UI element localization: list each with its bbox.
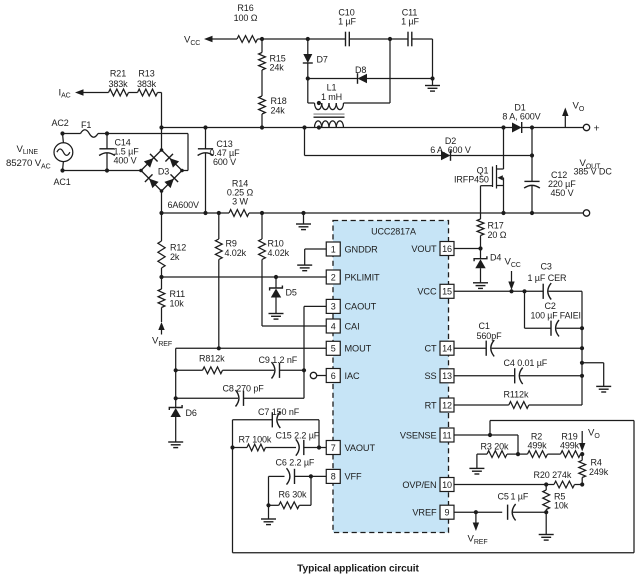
label VOUT 385VDC [574, 158, 613, 176]
svg-text:20 Ω: 20 Ω [488, 230, 507, 240]
ground (CT/SS rail) [582, 363, 611, 392]
capacitor C5 1uF [498, 491, 547, 520]
svg-text:24k: 24k [271, 105, 286, 115]
capacitor C9 1.2nF [223, 355, 305, 379]
svg-text:R21: R21 [110, 68, 126, 78]
svg-text:249k: 249k [589, 467, 609, 477]
node R5/C5 [544, 510, 548, 514]
node D2 cathode [530, 153, 534, 157]
ground (GNDDR) [297, 265, 312, 271]
svg-text:R20 274k: R20 274k [534, 470, 572, 480]
ground (R3) [469, 468, 484, 474]
node D7 top [306, 37, 310, 41]
node output positive [530, 125, 534, 129]
node R12/R11 [159, 275, 163, 279]
pin 10 OVP/EN [402, 478, 454, 492]
svg-text:6A600V: 6A600V [168, 200, 200, 210]
svg-text:C2: C2 [545, 301, 556, 311]
svg-text:MOUT: MOUT [345, 344, 372, 354]
power flag VCC (right) [505, 257, 521, 290]
svg-text:D6: D6 [186, 408, 197, 418]
zener diode D5 [270, 275, 297, 314]
svg-text:1 µF: 1 µF [401, 17, 419, 27]
resistor R6 30k [269, 476, 312, 508]
node D2 branch [302, 125, 306, 129]
power flag VCC (top) [184, 35, 237, 47]
wire CAI [262, 325, 326, 327]
wire Q1 gate [481, 186, 493, 219]
node VREF arrow [474, 510, 478, 514]
node R19/R4 [580, 452, 584, 456]
svg-text:F1: F1 [81, 120, 91, 130]
wire GNDDR [305, 249, 327, 265]
svg-text:9: 9 [445, 508, 450, 518]
resistor R16 100ohm [234, 3, 258, 42]
source VLINE 85-270VAC [6, 143, 73, 171]
node C14 bottom [105, 168, 109, 172]
pin 9 VREF [412, 505, 454, 519]
terminal AC2 [52, 118, 69, 136]
svg-text:AC2: AC2 [52, 118, 69, 128]
pin 14 CT [424, 341, 454, 355]
wire Q1 source [503, 178, 505, 213]
svg-text:R13: R13 [138, 68, 154, 78]
current flag IAC [59, 87, 109, 99]
svg-text:16: 16 [442, 244, 452, 254]
capacitor C3 1uF CER [528, 262, 583, 300]
svg-text:AC1: AC1 [54, 177, 71, 187]
wire feedback loop [233, 421, 635, 553]
node C12 bottom [530, 211, 534, 215]
svg-text:C5: C5 [498, 491, 509, 501]
svg-text:D3: D3 [158, 167, 169, 177]
node C2 right [580, 326, 584, 330]
capacitor C1 560pF [454, 321, 582, 356]
inductor L1 1mH (transformer) [314, 83, 345, 130]
svg-text:R7 100k: R7 100k [239, 435, 272, 445]
wire CAOUT [304, 306, 326, 370]
svg-text:8 A, 600V: 8 A, 600V [502, 111, 540, 121]
svg-text:1 µF CER: 1 µF CER [528, 273, 567, 283]
pin 8 VFF [326, 469, 362, 483]
svg-text:499k: 499k [560, 441, 580, 451]
svg-text:C1: C1 [479, 321, 490, 331]
resistor R11 10k [158, 277, 185, 309]
svg-text:C15 2.2 µF: C15 2.2 µF [276, 431, 320, 441]
resistor R18 24k [259, 70, 287, 128]
svg-text:8: 8 [331, 472, 336, 482]
svg-text:VCC: VCC [417, 287, 437, 297]
zener diode D4 [474, 249, 501, 283]
resistor R13 383k [137, 68, 158, 96]
ground (return row) [296, 213, 311, 230]
wire MOUT row [176, 347, 327, 349]
svg-text:499k: 499k [527, 441, 547, 451]
svg-text:R16: R16 [237, 3, 253, 13]
pin 4 CAI [326, 319, 359, 333]
wire output column [531, 128, 533, 182]
terminal output - [583, 210, 589, 216]
pin 2 PKLIMIT [326, 270, 380, 284]
pin 6 IAC [326, 369, 360, 383]
capacitor C2 100uF [525, 291, 583, 336]
ground (D6) [168, 442, 183, 448]
wire R13 to bridge column [158, 93, 162, 151]
node R9/MOUT [217, 346, 221, 350]
svg-text:VSENSE: VSENSE [400, 430, 437, 440]
capacitor C7 150nF [233, 407, 320, 448]
svg-text:R112k: R112k [504, 389, 529, 399]
zener diode D6 [169, 405, 197, 442]
node R6 left [266, 503, 270, 507]
ground (R5) [539, 512, 554, 540]
wire VOUT(gate) row [454, 248, 481, 250]
resistor R10 4.02k [259, 213, 290, 326]
wire VSENSE row [455, 435, 519, 454]
svg-text:C9 1.2 nF: C9 1.2 nF [259, 355, 298, 365]
wire R21-R13 [129, 92, 138, 94]
svg-text:C7 150 nF: C7 150 nF [258, 407, 300, 417]
svg-text:2: 2 [331, 272, 336, 282]
node D1 anode / Q1 drain [501, 125, 505, 129]
node R3/R2 [516, 452, 520, 456]
node D8 cathode rail [430, 76, 434, 80]
svg-text:Typical application circuit: Typical application circuit [297, 564, 419, 575]
node gate drive [478, 246, 482, 250]
pin 16 VOUT [411, 242, 454, 256]
resistor R14 0.25ohm 3W [227, 178, 254, 216]
svg-text:R11: R11 [170, 289, 186, 299]
wire return row left [162, 212, 230, 214]
svg-text:R3 20k: R3 20k [481, 441, 510, 451]
svg-text:400 V: 400 V [114, 156, 137, 166]
power flag V0 (feedback) [579, 428, 600, 452]
capacitor C12 220uF 450V [524, 170, 576, 213]
resistor R2 499k [518, 432, 548, 458]
node R10 top [260, 211, 264, 215]
wire bridge bottom to return row [161, 191, 163, 213]
svg-text:24k: 24k [270, 63, 285, 73]
wire AC1 to bridge left [63, 170, 142, 172]
capacitor C13 0.47uF 600V [198, 128, 240, 214]
svg-text:4: 4 [331, 321, 336, 331]
caption [297, 564, 419, 575]
node primary feed [388, 37, 392, 41]
wire comp network vertical [175, 348, 177, 407]
diode D7 [303, 39, 328, 79]
svg-text:10k: 10k [170, 299, 185, 309]
svg-text:10k: 10k [554, 501, 569, 511]
pin 5 MOUT [326, 341, 371, 355]
node rail ground branch [580, 361, 584, 365]
svg-text:13: 13 [442, 371, 452, 381]
node return ground stub [301, 211, 305, 215]
pin 13 SS [424, 369, 454, 383]
resistor R20 274k [534, 470, 583, 488]
node feedback loop [488, 433, 492, 437]
svg-text:C3: C3 [541, 262, 552, 272]
node C14 top [105, 131, 109, 135]
pin 1 GNDDR [326, 242, 378, 256]
svg-text:+: + [594, 123, 600, 135]
wire AC source leads [62, 134, 65, 171]
svg-text:4.02k: 4.02k [225, 248, 247, 258]
svg-text:100 Ω: 100 Ω [234, 13, 258, 23]
node R5 top [544, 482, 548, 486]
svg-text:6: 6 [331, 371, 336, 381]
svg-text:L1: L1 [327, 83, 337, 93]
svg-text:7: 7 [331, 443, 336, 453]
wire C11 to ground corner [412, 39, 433, 79]
svg-text:15: 15 [442, 287, 452, 297]
resistor R12 2k [158, 213, 186, 277]
pin 15 VCC [417, 284, 454, 298]
transistor Q1 IRFP450 [454, 165, 504, 189]
wire comp loop left [232, 420, 234, 553]
pin 12 RT [425, 398, 454, 412]
svg-text:2k: 2k [170, 252, 180, 262]
svg-text:D7: D7 [317, 55, 328, 65]
svg-text:C4 0.01 µF: C4 0.01 µF [504, 358, 548, 368]
svg-text:12: 12 [442, 400, 452, 410]
capacitor C8 270pF [176, 370, 304, 406]
svg-text:383k: 383k [108, 79, 128, 89]
resistor R17 20ohm [477, 219, 507, 249]
svg-text:3: 3 [331, 302, 336, 312]
capacitor C15 2.2uF [266, 431, 327, 456]
node R18 bottom [260, 125, 264, 129]
node C13 bottom [203, 211, 207, 215]
svg-text:1: 1 [331, 244, 336, 254]
diode D1 8A 600V [502, 103, 540, 133]
capacitor C4 0.01uF [454, 358, 582, 384]
node R4 bottom [580, 482, 584, 486]
svg-text:3 W: 3 W [232, 196, 248, 206]
terminal AC1 [54, 168, 71, 187]
wire Vcc rail to C10 [258, 38, 346, 40]
resistor R3 20k [477, 441, 518, 468]
node VAOUT pin [317, 445, 321, 449]
node R15 top [260, 37, 264, 41]
node C9/CAOUT [302, 368, 306, 372]
svg-text:1 µF: 1 µF [338, 17, 356, 27]
node VAOUT left [230, 445, 234, 449]
ground (VFF) [261, 505, 276, 524]
wire VREF row [454, 511, 502, 513]
power flag V0 (output top) [562, 101, 585, 128]
svg-text:UCC2817A: UCC2817A [371, 227, 416, 237]
resistor R4 249k [579, 454, 609, 484]
svg-text:11: 11 [442, 430, 451, 440]
node Q1 source/return [501, 211, 505, 215]
ground (D4) [473, 283, 488, 289]
svg-text:VOUT: VOUT [411, 244, 437, 254]
svg-text:14: 14 [442, 344, 452, 354]
wire C10-C11 [349, 38, 408, 40]
wire main rectified rail [162, 127, 504, 129]
svg-text:VAOUT: VAOUT [345, 443, 376, 453]
resistor R8 12k [176, 354, 225, 374]
svg-text:RT: RT [425, 400, 437, 410]
pin 7 VAOUT [326, 441, 375, 455]
svg-text:SS: SS [424, 371, 436, 381]
svg-text:5: 5 [331, 344, 336, 354]
wire D1 to output terminal [522, 127, 584, 129]
svg-text:PKLIMIT: PKLIMIT [345, 272, 381, 282]
resistor R19 499k [548, 432, 583, 458]
capacitor C14 1.5uF 400V [99, 134, 139, 171]
svg-text:4.02k: 4.02k [268, 248, 290, 258]
node C13 top [203, 125, 207, 129]
svg-text:600 V: 600 V [213, 157, 236, 167]
resistor R21 383k [108, 68, 128, 96]
ground (D5) [269, 314, 284, 320]
svg-text:OVP/EN: OVP/EN [402, 480, 436, 490]
resistor R1 12k [454, 389, 582, 408]
terminal output + [583, 123, 599, 135]
svg-text:1 µF: 1 µF [511, 491, 529, 501]
svg-text:383k: 383k [137, 79, 157, 89]
wire PKLIMIT row [162, 276, 327, 278]
resistor R15 24k [259, 39, 286, 73]
svg-text:CT: CT [424, 344, 437, 354]
node C1 right [580, 346, 584, 350]
node bridge top rail [159, 125, 163, 129]
svg-text:GNDDR: GNDDR [345, 244, 379, 254]
svg-text:VFF: VFF [345, 472, 363, 482]
svg-text:R6 30k: R6 30k [279, 489, 308, 499]
wire fuse to bridge right [98, 134, 188, 171]
svg-text:CAOUT: CAOUT [345, 302, 377, 312]
wire Q1 drain [503, 128, 505, 170]
IC UCC2817A body [333, 221, 449, 533]
power flag VREF (left) [152, 308, 172, 348]
svg-text:IRFP450: IRFP450 [454, 175, 489, 185]
diode D8 [308, 65, 433, 84]
svg-text:VREF: VREF [412, 508, 437, 518]
svg-text:D4: D4 [490, 253, 501, 263]
svg-text:385 V DC: 385 V DC [574, 166, 613, 176]
svg-text:450 V: 450 V [551, 188, 574, 198]
capacitor C11 1uF [401, 7, 419, 46]
capacitor C10 1uF [338, 7, 356, 46]
ground (top right) [425, 79, 440, 92]
svg-text:D5: D5 [286, 288, 297, 298]
node C4 right [580, 374, 584, 378]
pin 11 VSENSE [400, 428, 454, 442]
wire OVP/EN row [454, 484, 546, 486]
svg-text:R812k: R812k [199, 354, 225, 364]
power flag VREF (bottom) [468, 512, 488, 546]
node R9 top [217, 211, 221, 215]
resistor R5 10k [543, 485, 569, 513]
resistor R7 100k [233, 435, 272, 451]
bridge rectifier D3 6A600V [139, 148, 199, 210]
svg-text:CAI: CAI [345, 321, 360, 331]
svg-text:C8 270 pF: C8 270 pF [223, 383, 265, 393]
terminal IAC input [310, 372, 326, 378]
svg-text:10: 10 [442, 480, 452, 490]
svg-text:IAC: IAC [345, 371, 360, 381]
wire L1 primary to node [344, 39, 391, 103]
svg-text:560pF: 560pF [477, 331, 503, 341]
svg-text:1 mH: 1 mH [321, 92, 342, 102]
resistor R9 4.02k [215, 213, 246, 348]
wire right rail [581, 291, 583, 405]
node return/bridge [159, 211, 163, 215]
capacitor C6 2.2uF [269, 458, 327, 506]
wire return row right [249, 212, 583, 214]
node C2 branch [522, 289, 526, 293]
diode D2 6A 600V [305, 128, 533, 161]
svg-text:C6 2.2 µF: C6 2.2 µF [276, 458, 315, 468]
wire VCC row [454, 290, 543, 292]
fuse F1 [63, 120, 99, 137]
svg-text:D8: D8 [355, 65, 366, 75]
pin 3 CAOUT [326, 299, 376, 313]
wire D7 to L1 primary [306, 76, 315, 103]
node VFF [309, 474, 313, 478]
svg-text:100 µF FAIEI: 100 µF FAIEI [531, 311, 581, 321]
node R8 left [174, 368, 178, 372]
node C8 left [174, 396, 178, 400]
svg-text:6 A, 600 V: 6 A, 600 V [430, 145, 471, 155]
node VCC arrow [509, 289, 513, 293]
